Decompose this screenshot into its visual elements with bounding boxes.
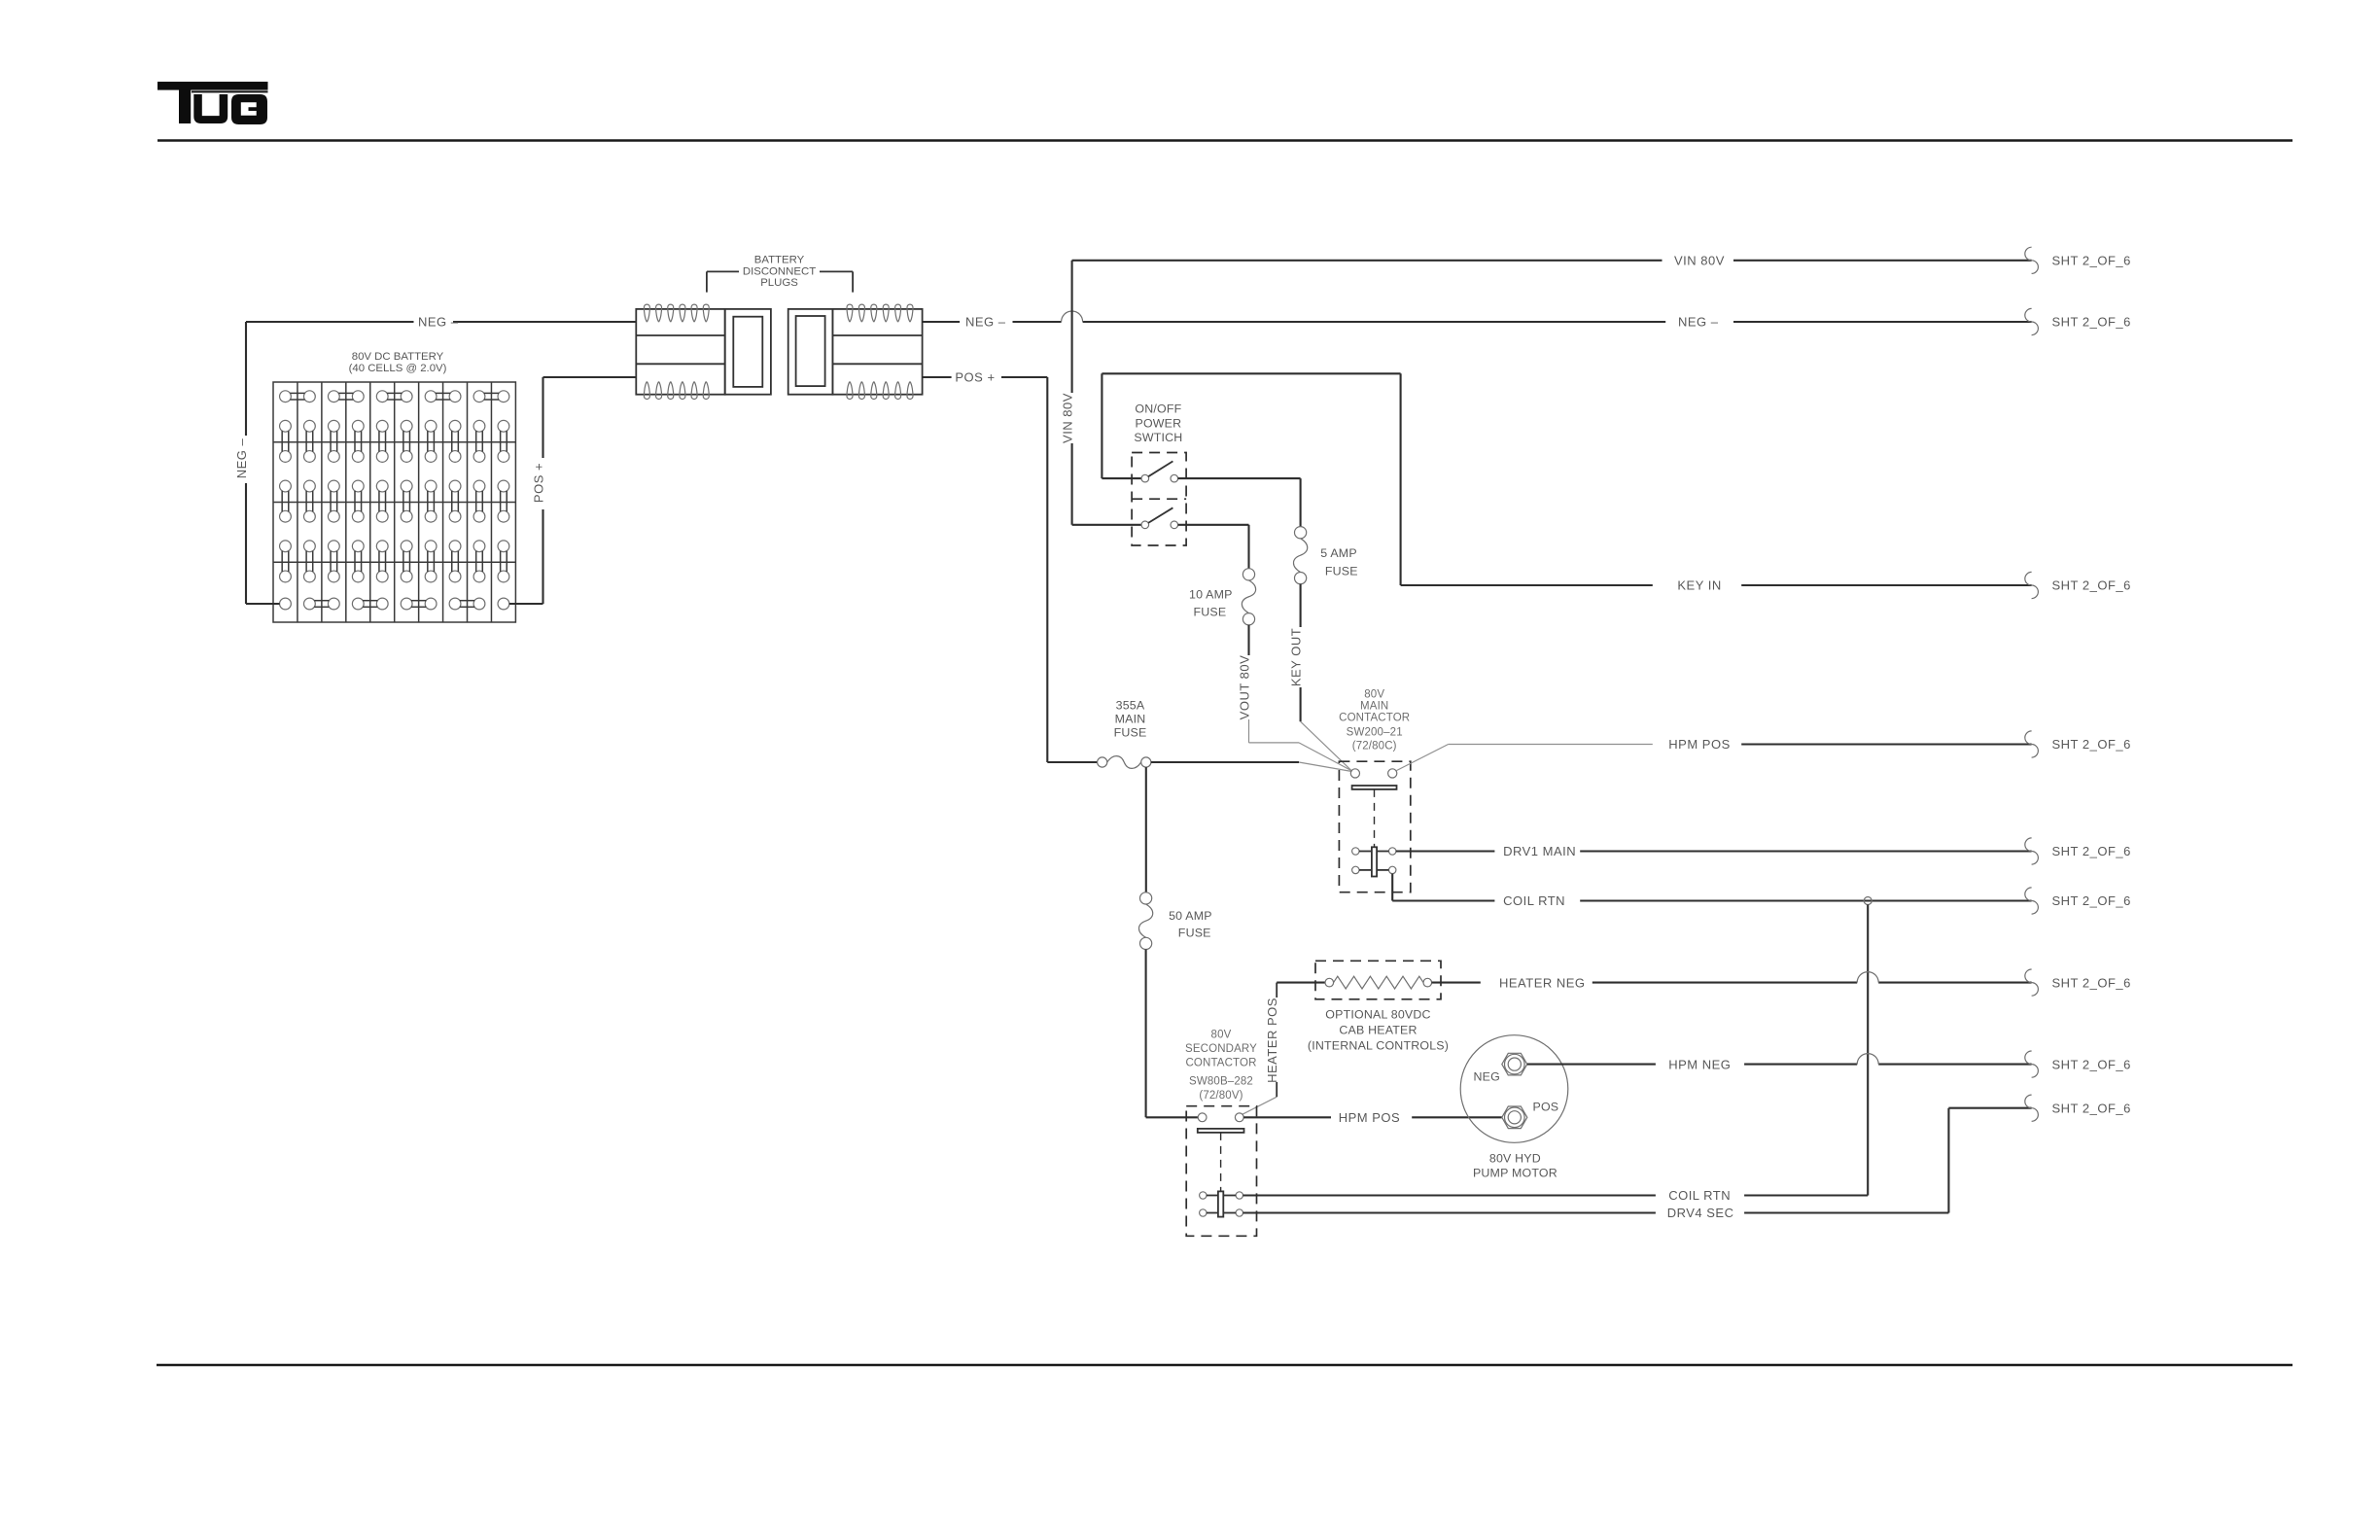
svg-text:SECONDARY: SECONDARY [1185, 1043, 1257, 1055]
svg-text:SHT 2_OF_6: SHT 2_OF_6 [2052, 893, 2131, 908]
wire net VOUT 80V [1249, 625, 1300, 743]
top border rule [157, 139, 2292, 141]
svg-text:DRV4 SEC: DRV4 SEC [1667, 1206, 1734, 1220]
svg-text:POS +: POS + [532, 463, 546, 503]
off-page connector DRV1 MAIN SHT 2_OF_6 [2025, 838, 2039, 864]
svg-text:SHT 2_OF_6: SHT 2_OF_6 [2052, 1057, 2131, 1071]
svg-text:80V HYD: 80V HYD [1489, 1152, 1541, 1166]
svg-text:MAIN: MAIN [1360, 700, 1388, 712]
svg-text:NEG –: NEG – [234, 437, 249, 478]
wire switch lower pole to 10A fuse [1178, 525, 1249, 569]
svg-text:OPTIONAL 80VDC: OPTIONAL 80VDC [1325, 1007, 1430, 1021]
fuse F1 355A MAIN [1098, 757, 1107, 767]
junction COIL RTN node [1864, 897, 1872, 905]
TUG company logo [157, 82, 268, 124]
right disconnect plug P2 [788, 304, 923, 399]
contactor K2 coil [1200, 1191, 1243, 1216]
fuse F3 10 AMP [1242, 569, 1254, 580]
wire NEG battery to disconnect plug [246, 322, 636, 604]
svg-text:CONTACTOR: CONTACTOR [1339, 713, 1410, 724]
contactor K1 80V MAIN CONTACTOR SW200-21 (72/80C) label [1339, 689, 1410, 752]
svg-text:CAB HEATER: CAB HEATER [1339, 1024, 1417, 1037]
wire net POS + from plug to 355A main fuse [923, 377, 1098, 762]
off-page connector VIN 80V SHT 2_OF_6 [2025, 247, 2039, 273]
wire net DRV4 SEC [1243, 1108, 2032, 1213]
contactor K2 dashed box [1186, 1106, 1256, 1237]
heater R1 dashed box [1315, 961, 1441, 999]
wire net HPM NEG [1527, 1064, 2032, 1066]
contactor K2 actuator dashed link [1220, 1133, 1222, 1192]
svg-text:(INTERNAL CONTROLS): (INTERNAL CONTROLS) [1308, 1039, 1449, 1053]
svg-text:5 AMP: 5 AMP [1320, 546, 1357, 560]
svg-text:(72/80C): (72/80C) [1352, 741, 1397, 752]
svg-text:BATTERY: BATTERY [754, 255, 805, 266]
wire net COIL RTN (secondary) [1243, 1194, 1869, 1196]
svg-text:KEY OUT: KEY OUT [1289, 628, 1304, 686]
switch S1 upper pole [1141, 461, 1178, 482]
svg-text:FUSE: FUSE [1325, 565, 1358, 578]
fuse F4 50 AMP [1140, 892, 1152, 904]
svg-text:NEG: NEG [1474, 1070, 1500, 1084]
svg-text:80V: 80V [1211, 1030, 1232, 1041]
heater label OPTIONAL 80VDC CAB HEATER (INTERNAL CONTROLS) [1308, 1007, 1449, 1052]
svg-text:SHT 2_OF_6: SHT 2_OF_6 [2052, 578, 2131, 593]
wire COIL RTN vertical to secondary contactor [1867, 905, 1869, 1196]
svg-text:SW200–21: SW200–21 [1347, 726, 1403, 738]
svg-text:FUSE: FUSE [1178, 927, 1211, 940]
svg-text:HPM POS: HPM POS [1668, 737, 1730, 752]
wire net HPM POS (secondary contactor to pump motor) [1243, 1116, 1502, 1118]
switch S1 lower pole [1141, 507, 1178, 528]
wire net DRV1 MAIN [1396, 850, 2032, 852]
svg-text:80V: 80V [1364, 689, 1384, 701]
svg-text:10 AMP: 10 AMP [1189, 588, 1233, 602]
wire net VIN 80V [1072, 261, 2032, 525]
off-page connector COIL RTN SHT 2_OF_6 [2025, 888, 2039, 914]
svg-text:COIL RTN: COIL RTN [1503, 893, 1565, 908]
wire net HEATER POS [1242, 983, 1325, 1115]
motor M1 NEG terminal bolt [1502, 1053, 1527, 1075]
svg-text:ON/OFF: ON/OFF [1135, 402, 1181, 416]
wire hop NEG over VIN 80V [1062, 311, 1083, 322]
bottom border rule [157, 1364, 2292, 1366]
resistor R1 cab heater element [1325, 976, 1432, 989]
wire net NEG from plug to sheet connector [923, 321, 2032, 323]
wire net COIL RTN (main) [1392, 874, 2031, 901]
svg-text:(72/80V): (72/80V) [1199, 1090, 1242, 1102]
svg-text:SHT 2_OF_6: SHT 2_OF_6 [2052, 1101, 2131, 1115]
contactor K2 80V SECONDARY CONTACTOR SW80B-282 (72/80V) label [1185, 1030, 1257, 1102]
leader VOUT 80V to contactor coil [1299, 743, 1351, 771]
svg-text:FUSE: FUSE [1193, 605, 1226, 618]
svg-text:80V DC BATTERY: 80V DC BATTERY [352, 351, 444, 363]
left disconnect plug P1 [636, 304, 771, 399]
battery inter-cell links [282, 393, 507, 607]
svg-text:(40 CELLS @ 2.0V): (40 CELLS @ 2.0V) [349, 363, 447, 374]
svg-text:355A: 355A [1116, 699, 1145, 713]
svg-text:SHT 2_OF_6: SHT 2_OF_6 [2052, 844, 2131, 858]
svg-text:VIN 80V: VIN 80V [1674, 254, 1725, 268]
motor M1 80V HYD PUMP MOTOR body [1460, 1035, 1568, 1143]
wire hop HEATER NEG over COIL RTN vertical [1857, 972, 1878, 983]
fuse F2 5 AMP [1295, 527, 1307, 539]
wire switch upper pole to 5A fuse [1178, 478, 1301, 526]
svg-text:SHT 2_OF_6: SHT 2_OF_6 [2052, 315, 2131, 330]
svg-text:SHT 2_OF_6: SHT 2_OF_6 [2052, 975, 2131, 990]
svg-text:NEG –: NEG – [965, 315, 1006, 330]
wire net KEY IN [1102, 373, 2031, 585]
wire hop HPM NEG over COIL RTN vertical [1857, 1054, 1878, 1065]
contactor K1 dashed box [1339, 761, 1410, 892]
svg-text:FUSE: FUSE [1114, 726, 1147, 740]
off-page connector DRV4 SEC SHT 2_OF_6 [2025, 1095, 2039, 1121]
contactor K2 main contacts [1198, 1113, 1244, 1133]
contactor K1 actuator dashed link [1374, 789, 1376, 847]
plugs label leader bracket [707, 271, 853, 292]
svg-text:POS +: POS + [955, 370, 995, 385]
svg-text:SHT 2_OF_6: SHT 2_OF_6 [2052, 254, 2131, 268]
battery cell grid [273, 382, 515, 622]
svg-text:COIL RTN: COIL RTN [1668, 1188, 1731, 1203]
svg-text:NEG –: NEG – [418, 315, 459, 330]
svg-text:MAIN: MAIN [1115, 713, 1146, 726]
off-page connector NEG SHT 2_OF_6 [2025, 308, 2039, 334]
svg-text:POWER: POWER [1135, 417, 1181, 431]
svg-text:VOUT 80V: VOUT 80V [1238, 655, 1252, 720]
svg-text:HPM NEG: HPM NEG [1668, 1057, 1731, 1071]
svg-text:SW80B–282: SW80B–282 [1189, 1076, 1253, 1088]
leader KEY OUT to contactor coil [1301, 721, 1351, 770]
wire net HEATER NEG [1432, 982, 2032, 984]
off-page connector HPM NEG SHT 2_OF_6 [2025, 1051, 2039, 1077]
off-page connector HPM POS SHT 2_OF_6 [2025, 731, 2039, 757]
off-page connector KEY IN SHT 2_OF_6 [2025, 572, 2039, 598]
off-page connector HEATER NEG SHT 2_OF_6 [2025, 969, 2039, 996]
motor label 80V HYD PUMP MOTOR [1473, 1152, 1557, 1180]
svg-text:PLUGS: PLUGS [760, 277, 798, 289]
wire net HPM POS (main contactor output) [1396, 745, 2031, 771]
svg-text:SWTICH: SWTICH [1134, 431, 1182, 444]
wire 355A fuse to main contactor [1151, 761, 1299, 763]
svg-text:NEG –: NEG – [1678, 315, 1719, 330]
wire 50A fuse to secondary contactor [1146, 950, 1199, 1118]
svg-text:DISCONNECT: DISCONNECT [743, 265, 816, 277]
svg-text:KEY IN: KEY IN [1677, 578, 1721, 593]
svg-text:PUMP MOTOR: PUMP MOTOR [1473, 1167, 1557, 1180]
svg-text:HEATER POS: HEATER POS [1265, 997, 1279, 1083]
wire 355A fuse down to 50A fuse [1145, 767, 1147, 892]
battery cell terminal circles [280, 391, 509, 610]
svg-text:SHT 2_OF_6: SHT 2_OF_6 [2052, 737, 2131, 752]
contactor K1 main contacts [1350, 769, 1396, 789]
switch S1 dashed box [1132, 453, 1186, 546]
svg-text:HPM POS: HPM POS [1339, 1110, 1400, 1125]
svg-text:HEATER NEG: HEATER NEG [1499, 975, 1586, 990]
svg-text:DRV1 MAIN: DRV1 MAIN [1503, 844, 1576, 858]
motor M1 POS terminal bolt [1502, 1106, 1527, 1129]
svg-text:VIN 80V: VIN 80V [1061, 393, 1075, 443]
svg-text:50 AMP: 50 AMP [1169, 909, 1212, 923]
svg-text:CONTACTOR: CONTACTOR [1185, 1058, 1256, 1069]
svg-text:POS: POS [1533, 1101, 1559, 1114]
contactor K1 coil [1352, 847, 1396, 876]
leader fuse to contactor contact [1299, 762, 1352, 772]
wire net KEY OUT [1300, 584, 1302, 722]
wire POS battery to disconnect plug [509, 377, 636, 604]
